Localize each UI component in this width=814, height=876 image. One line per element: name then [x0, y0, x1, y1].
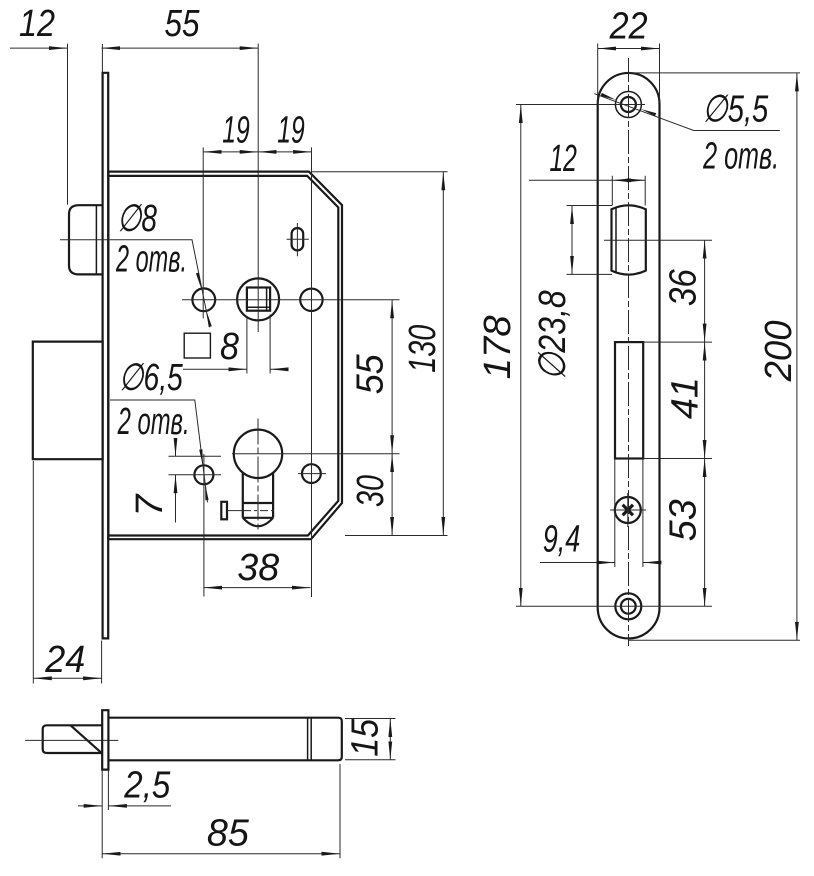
- svg-text:41: 41: [664, 377, 706, 419]
- svg-text:19: 19: [277, 110, 305, 152]
- svg-text:2 отв.: 2 отв.: [115, 239, 187, 281]
- svg-text:55: 55: [349, 353, 391, 394]
- svg-text:85: 85: [207, 813, 250, 855]
- svg-text:30: 30: [350, 475, 392, 507]
- svg-text:2,5: 2,5: [123, 765, 171, 807]
- svg-text:19: 19: [222, 110, 250, 152]
- svg-text:∅6,5: ∅6,5: [119, 357, 184, 399]
- svg-text:38: 38: [237, 547, 279, 589]
- svg-text:22: 22: [609, 6, 648, 48]
- svg-text:2 отв.: 2 отв.: [117, 401, 190, 443]
- svg-text:7: 7: [129, 493, 171, 517]
- svg-text:12: 12: [19, 3, 55, 45]
- svg-text:12: 12: [549, 138, 577, 180]
- svg-text:200: 200: [758, 320, 800, 382]
- svg-text:9,4: 9,4: [543, 519, 581, 561]
- svg-text:36: 36: [663, 268, 705, 306]
- svg-text:53: 53: [663, 499, 705, 541]
- svg-text:178: 178: [477, 315, 519, 379]
- svg-text:∅5,5: ∅5,5: [702, 89, 769, 131]
- svg-text:∅8: ∅8: [117, 198, 157, 240]
- svg-text:130: 130: [402, 325, 444, 373]
- svg-text:55: 55: [165, 3, 201, 45]
- svg-text:2 отв.: 2 отв.: [702, 136, 779, 178]
- svg-text:8: 8: [220, 326, 239, 368]
- svg-text:15: 15: [345, 718, 387, 757]
- svg-text:∅23,8: ∅23,8: [532, 290, 574, 380]
- svg-text:24: 24: [44, 639, 85, 681]
